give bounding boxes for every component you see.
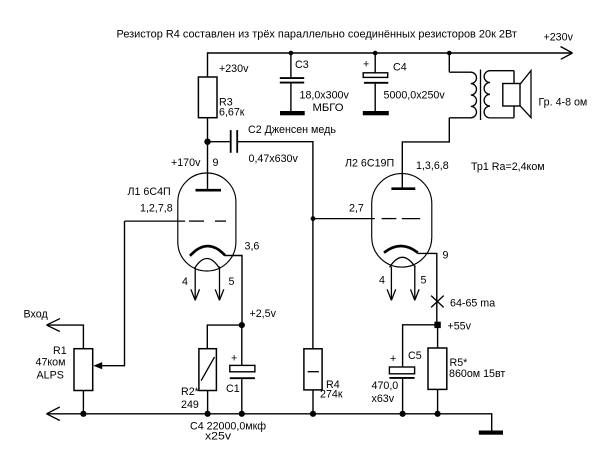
svg-text:249: 249 bbox=[181, 399, 199, 411]
svg-text:C5: C5 bbox=[408, 350, 422, 362]
potentiometer R1 wiper arrow bbox=[93, 362, 102, 369]
tube L1 anode plate bbox=[196, 189, 222, 192]
tube L1 grid bbox=[125, 220, 227, 222]
svg-text:+170v: +170v bbox=[171, 157, 201, 169]
svg-text:9: 9 bbox=[443, 250, 449, 262]
svg-text:64-65 ma: 64-65 ma bbox=[450, 298, 495, 310]
capacitor C5 bbox=[389, 367, 414, 414]
wire C2 left lead bbox=[208, 141, 230, 143]
capacitor C1 bbox=[230, 325, 255, 414]
svg-text:860ом 15вт: 860ом 15вт bbox=[449, 368, 505, 380]
node +2,5v bbox=[239, 322, 245, 328]
wire R3 top lead bbox=[207, 52, 209, 77]
svg-text:+: + bbox=[363, 58, 369, 70]
svg-text:+: + bbox=[231, 353, 237, 365]
wire primary bottom to tube2 plate bbox=[402, 118, 449, 188]
wire +55v to C5 bbox=[403, 325, 438, 367]
svg-text:C4: C4 bbox=[393, 62, 407, 74]
capacitor C2 bbox=[231, 130, 238, 153]
svg-text:+230v: +230v bbox=[544, 32, 574, 44]
wire input bbox=[47, 319, 84, 349]
wire R2 bottom bbox=[207, 391, 209, 414]
node R4 bottom bbox=[310, 411, 316, 417]
svg-text:274к: 274к bbox=[320, 389, 343, 401]
svg-text:470,0: 470,0 bbox=[372, 380, 399, 392]
svg-text:R2*: R2* bbox=[181, 386, 199, 398]
tube L2 cathode bbox=[384, 246, 418, 253]
transformer core bbox=[480, 70, 482, 121]
tube L1 bottom pinch arc bbox=[195, 258, 220, 268]
node C1 bottom bbox=[239, 411, 245, 417]
svg-text:4: 4 bbox=[182, 276, 188, 288]
node +55v bbox=[434, 322, 440, 328]
svg-text:Тр1 Ra=2,4ком: Тр1 Ra=2,4ком bbox=[471, 161, 545, 173]
transformer Tr1 primary winding bbox=[449, 72, 476, 118]
wire bottom rail bbox=[47, 407, 492, 431]
svg-text:Гр. 4-8 ом: Гр. 4-8 ом bbox=[539, 97, 588, 109]
svg-text:С2 Дженсен медь: С2 Дженсен медь bbox=[248, 124, 336, 136]
wire C2 right to R4 top bbox=[238, 142, 313, 349]
ground C4 bbox=[363, 111, 389, 115]
svg-text:+230v: +230v bbox=[219, 63, 249, 75]
svg-text:+2,5v: +2,5v bbox=[250, 308, 277, 320]
svg-text:5000,0х250v: 5000,0х250v bbox=[384, 90, 446, 102]
current measuring X mark bbox=[431, 296, 444, 308]
tube L1 6S4P envelope bbox=[178, 173, 236, 271]
svg-text:Л1 6С4П: Л1 6С4П bbox=[128, 186, 171, 198]
resistor R5 bbox=[428, 325, 447, 414]
svg-text:1,3,6,8: 1,3,6,8 bbox=[416, 160, 449, 172]
node C3 top rail bbox=[289, 51, 294, 56]
tube L1 cathode bbox=[190, 246, 225, 256]
svg-text:ALPS: ALPS bbox=[37, 370, 64, 382]
svg-text:5: 5 bbox=[229, 276, 235, 288]
wire R3 bottom to tube1 plate bbox=[207, 118, 209, 190]
wire +230v top rail bbox=[208, 47, 573, 60]
svg-text:0,47х630v: 0,47х630v bbox=[249, 153, 299, 165]
transformer Tr1 secondary winding bbox=[484, 71, 514, 118]
svg-text:9: 9 bbox=[213, 157, 219, 169]
tube L2 grid bbox=[313, 218, 420, 220]
svg-text:6,67к: 6,67к bbox=[219, 107, 245, 119]
capacitor C4 bbox=[363, 52, 388, 111]
tube L2 bottom pinch arc bbox=[390, 257, 416, 267]
node R1 bottom bbox=[80, 411, 86, 417]
tube L2 heater pin 4 bbox=[387, 267, 396, 301]
tube L2 6S19P envelope bbox=[372, 174, 432, 268]
svg-text:х63v: х63v bbox=[372, 393, 395, 405]
tube L1 heater pin 5 bbox=[215, 267, 224, 301]
svg-text:+55v: +55v bbox=[448, 321, 472, 333]
wire speaker vertical bbox=[513, 71, 515, 118]
node C2 junction bbox=[204, 139, 210, 145]
svg-text:Вход: Вход bbox=[24, 308, 49, 320]
node transformer top rail bbox=[447, 51, 452, 56]
svg-text:Резистор R4 составлен из трёх: Резистор R4 составлен из трёх параллельн… bbox=[117, 28, 517, 40]
svg-text:C3: C3 bbox=[295, 59, 309, 71]
node C4 top rail bbox=[373, 51, 378, 56]
svg-text:3,6: 3,6 bbox=[245, 241, 260, 253]
tube L2 anode plate bbox=[391, 187, 415, 190]
ground bbox=[479, 431, 503, 435]
node R5 bottom bbox=[435, 411, 441, 417]
svg-text:47ком: 47ком bbox=[36, 356, 66, 368]
capacitor C3 bbox=[280, 52, 304, 111]
svg-text:1,2,7,8: 1,2,7,8 bbox=[140, 203, 173, 215]
node C5 bottom bbox=[400, 411, 406, 417]
node R2 bottom bbox=[205, 411, 211, 417]
wire L2 cathode lead bbox=[417, 253, 437, 324]
wire to transformer primary bbox=[448, 52, 450, 72]
svg-text:4: 4 bbox=[379, 275, 385, 287]
svg-text:Л2 6С19П: Л2 6С19П bbox=[345, 158, 394, 170]
wire L1 cathode lead bbox=[225, 256, 243, 326]
wire R4 bottom bbox=[312, 390, 314, 414]
svg-text:х25v: х25v bbox=[205, 430, 232, 442]
potentiometer R1 bbox=[74, 349, 93, 391]
svg-text:2,7: 2,7 bbox=[349, 203, 364, 215]
ground C3 bbox=[280, 111, 305, 115]
wire grid1 to R1 wiper bbox=[100, 221, 125, 366]
tube L2 heater pin 5 bbox=[411, 266, 420, 301]
svg-text:18,0х300v: 18,0х300v bbox=[300, 90, 350, 102]
svg-text:C1: C1 bbox=[226, 383, 240, 395]
svg-text:R1: R1 bbox=[53, 345, 67, 357]
resistor R4 bbox=[304, 349, 322, 390]
svg-text:5: 5 bbox=[421, 275, 427, 287]
svg-text:МБГО: МБГО bbox=[313, 102, 344, 114]
wire +2,5v to R2 bbox=[207, 325, 242, 349]
wire R1 bottom bbox=[82, 391, 84, 414]
speaker bbox=[503, 71, 531, 118]
resistor R3 bbox=[198, 77, 217, 118]
node grid2 junction bbox=[311, 216, 316, 221]
tube L1 heater pin 4 bbox=[191, 268, 200, 301]
resistor R2 (adjustable) bbox=[199, 349, 217, 391]
svg-text:+: + bbox=[390, 353, 396, 365]
